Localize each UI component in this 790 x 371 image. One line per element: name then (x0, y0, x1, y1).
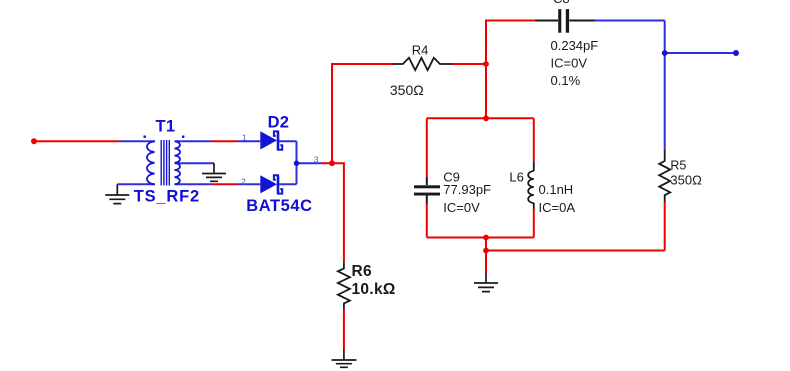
svg-text:2: 2 (241, 177, 246, 187)
svg-text:D2: D2 (268, 113, 290, 131)
svg-text:BAT54C: BAT54C (246, 197, 312, 215)
svg-text:TS_RF2: TS_RF2 (134, 188, 200, 206)
svg-text:R5: R5 (670, 158, 686, 172)
svg-text:T1: T1 (156, 118, 176, 136)
svg-text:350Ω: 350Ω (390, 82, 424, 98)
svg-text:1: 1 (242, 133, 247, 143)
svg-text:R4: R4 (412, 43, 429, 58)
svg-text:10.kΩ: 10.kΩ (352, 281, 396, 298)
svg-text:0.1%: 0.1% (551, 73, 581, 88)
svg-text:IC=0V: IC=0V (551, 55, 588, 70)
svg-text:77.93pF: 77.93pF (443, 182, 491, 197)
svg-text:L6: L6 (509, 169, 523, 184)
svg-text:0.234pF: 0.234pF (551, 38, 599, 53)
svg-text:R6: R6 (352, 263, 372, 280)
svg-text:3: 3 (314, 155, 319, 165)
svg-text:IC=0A: IC=0A (539, 200, 576, 215)
svg-text:0.1nH: 0.1nH (539, 182, 574, 197)
svg-text:C8: C8 (553, 0, 570, 6)
svg-text:350Ω: 350Ω (670, 173, 702, 188)
svg-text:IC=0V: IC=0V (443, 200, 480, 215)
